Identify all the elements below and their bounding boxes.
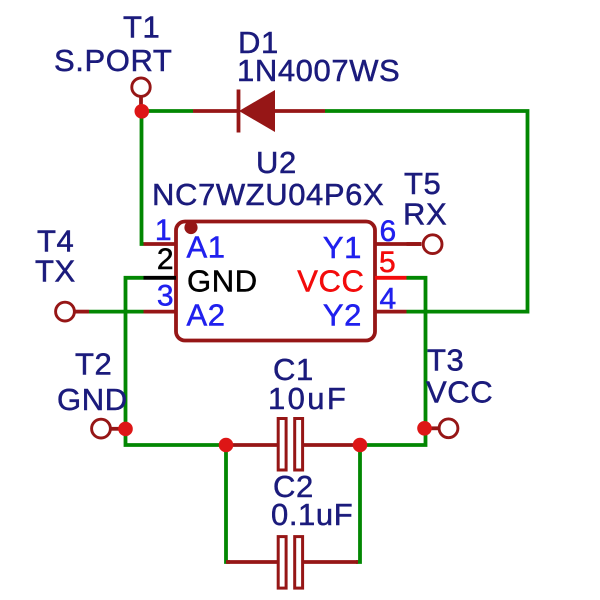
junction dot C1 left xyxy=(219,438,234,453)
svg-text:1N4007WS: 1N4007WS xyxy=(237,53,400,88)
pin 1 stub xyxy=(144,242,177,246)
junction dot at T2 xyxy=(118,422,133,437)
wire C2 right vertical xyxy=(356,445,360,562)
svg-text:5: 5 xyxy=(379,246,396,279)
terminal T5 xyxy=(407,235,443,254)
svg-text:0.1uF: 0.1uF xyxy=(271,497,353,532)
pin 6 stub xyxy=(375,242,422,246)
junction dot C1 right xyxy=(353,438,368,453)
wire pin 2 left and down to bottom rail xyxy=(126,278,227,445)
svg-text:U2: U2 xyxy=(256,145,297,180)
svg-text:2: 2 xyxy=(157,243,174,276)
svg-text:3: 3 xyxy=(157,279,174,312)
svg-text:10uF: 10uF xyxy=(268,381,348,416)
svg-text:Y1: Y1 xyxy=(323,230,362,265)
terminal T3 xyxy=(428,419,458,438)
wire T1 dot to diode (green horizontal) xyxy=(142,109,194,113)
junction dot at T3 xyxy=(417,421,432,436)
svg-text:GND: GND xyxy=(187,264,258,299)
wire diode to right rail down to pin 4 xyxy=(325,111,528,312)
svg-text:VCC: VCC xyxy=(297,264,364,299)
svg-text:TX: TX xyxy=(35,254,76,289)
svg-text:T2: T2 xyxy=(75,347,112,382)
pin 1 marker dot xyxy=(184,221,197,234)
capacitor C2 xyxy=(226,537,358,589)
svg-text:T3: T3 xyxy=(427,343,464,378)
svg-text:T1: T1 xyxy=(123,10,160,45)
svg-text:RX: RX xyxy=(403,197,447,232)
svg-text:VCC: VCC xyxy=(426,375,493,410)
terminal T4 xyxy=(56,302,89,321)
wire pin 5 right and down VCC rail xyxy=(360,278,426,445)
pin 4 stub xyxy=(375,310,407,314)
pin 2 stub (black) xyxy=(144,276,177,280)
pin 5 stub (red) xyxy=(375,276,407,280)
wire T4 to pin 3 xyxy=(89,310,144,314)
wire C2 left vertical xyxy=(226,445,230,562)
terminal T1 xyxy=(132,78,150,106)
junction dot at T1 xyxy=(135,104,150,119)
terminal T2 xyxy=(92,419,120,438)
capacitor C1 xyxy=(226,419,360,471)
svg-text:GND: GND xyxy=(57,382,128,417)
wire T1 dot down to pin 1 xyxy=(142,111,144,244)
pin 3 stub xyxy=(144,310,177,314)
svg-text:A2: A2 xyxy=(187,298,226,333)
diode D1 xyxy=(193,90,325,133)
svg-text:4: 4 xyxy=(380,283,397,316)
svg-text:S.PORT: S.PORT xyxy=(54,43,172,78)
svg-text:NC7WZU04P6X: NC7WZU04P6X xyxy=(152,177,384,212)
IC U2 body xyxy=(176,222,375,341)
svg-text:Y2: Y2 xyxy=(323,298,362,333)
svg-text:A1: A1 xyxy=(187,230,226,265)
svg-text:6: 6 xyxy=(380,215,397,248)
